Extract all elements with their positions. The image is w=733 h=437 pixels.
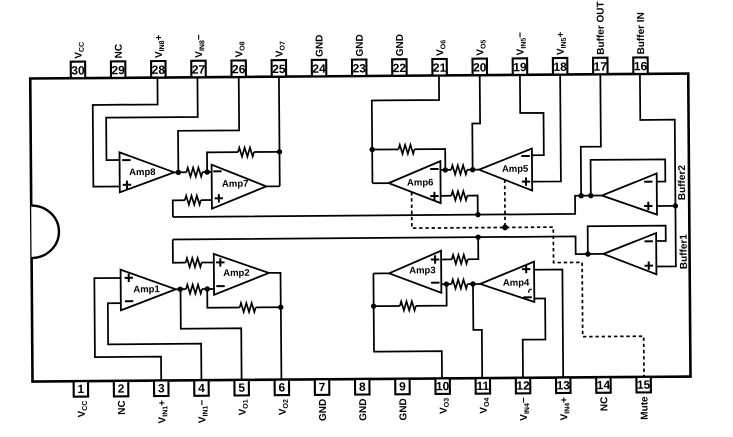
- svg-text:Mute: Mute: [639, 396, 650, 420]
- svg-text:14: 14: [597, 378, 611, 392]
- svg-text:GND: GND: [314, 35, 325, 57]
- svg-text:GND: GND: [395, 34, 406, 56]
- svg-text:Amp7: Amp7: [222, 179, 248, 190]
- svg-text:3: 3: [158, 381, 165, 395]
- svg-text:5: 5: [238, 381, 245, 395]
- svg-text:GND: GND: [318, 399, 329, 421]
- svg-text:8: 8: [359, 380, 366, 394]
- svg-text:19: 19: [513, 60, 527, 74]
- svg-text:Amp3: Amp3: [409, 265, 435, 276]
- svg-text:28: 28: [152, 63, 166, 77]
- svg-text:27: 27: [192, 63, 206, 77]
- svg-text:NC: NC: [599, 397, 610, 412]
- svg-text:24: 24: [312, 62, 326, 76]
- svg-text:NC: NC: [114, 44, 125, 59]
- svg-text:10: 10: [436, 379, 450, 393]
- svg-text:Buffer IN: Buffer IN: [636, 12, 647, 54]
- svg-text:17: 17: [594, 59, 608, 73]
- svg-text:Amp1: Amp1: [133, 284, 160, 295]
- svg-text:GND: GND: [398, 398, 409, 420]
- svg-text:18: 18: [553, 60, 567, 74]
- svg-text:GND: GND: [358, 398, 369, 420]
- svg-text:Amp5: Amp5: [502, 164, 529, 175]
- svg-text:Buffer2: Buffer2: [677, 165, 688, 201]
- svg-text:29: 29: [111, 63, 125, 77]
- svg-text:Amp4: Amp4: [503, 278, 530, 289]
- svg-text:13: 13: [557, 378, 571, 392]
- svg-text:20: 20: [473, 60, 487, 74]
- svg-text:22: 22: [393, 61, 407, 75]
- svg-text:Amp8: Amp8: [129, 167, 155, 178]
- svg-text:4: 4: [198, 381, 205, 395]
- svg-text:Buffer OUT: Buffer OUT: [596, 1, 607, 54]
- svg-text:7: 7: [319, 380, 326, 394]
- svg-text:25: 25: [272, 62, 286, 76]
- svg-text:6: 6: [278, 380, 285, 394]
- svg-text:12: 12: [516, 379, 530, 393]
- svg-text:11: 11: [476, 379, 489, 393]
- svg-text:30: 30: [71, 63, 85, 77]
- svg-text:26: 26: [232, 62, 246, 76]
- svg-text:15: 15: [637, 378, 651, 392]
- svg-text:21: 21: [433, 61, 447, 75]
- svg-text:Amp6: Amp6: [407, 177, 433, 188]
- svg-text:1: 1: [77, 382, 84, 396]
- svg-text:9: 9: [399, 380, 406, 394]
- svg-text:23: 23: [353, 61, 367, 75]
- svg-text:Amp2: Amp2: [223, 268, 249, 279]
- svg-text:Buffer1: Buffer1: [679, 234, 690, 270]
- svg-text:16: 16: [634, 59, 648, 73]
- svg-text:GND: GND: [355, 34, 366, 56]
- svg-text:NC: NC: [117, 400, 128, 415]
- svg-text:2: 2: [118, 382, 125, 396]
